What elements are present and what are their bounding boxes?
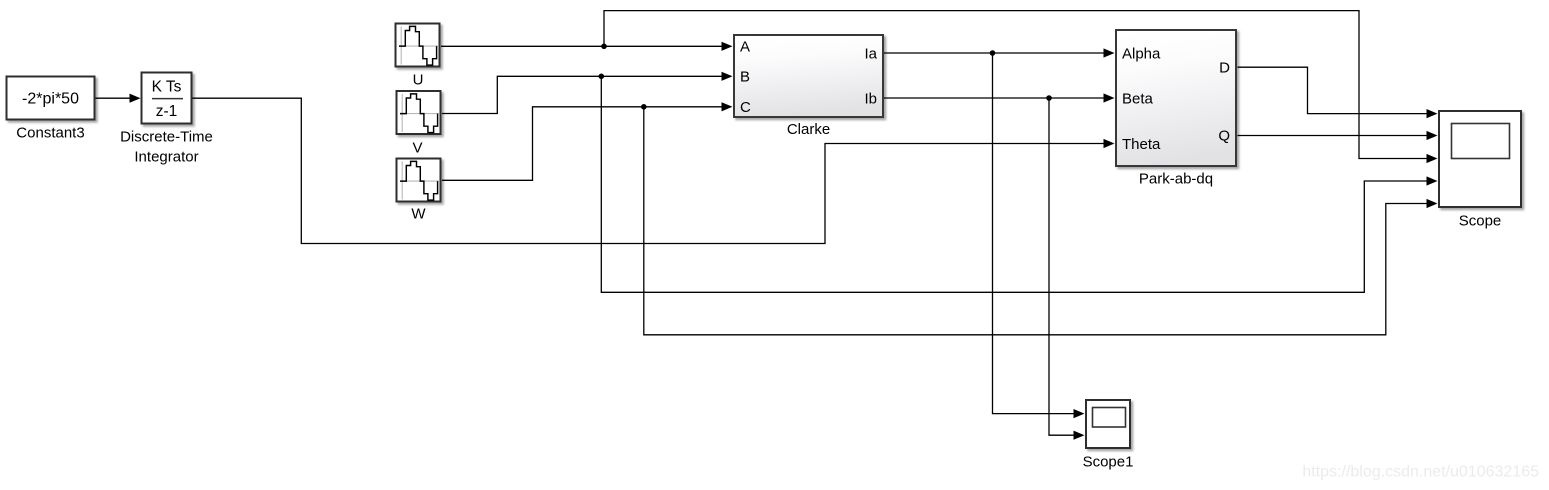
junction dot on V wire bbox=[599, 74, 605, 80]
svg-text:https://blog.csdn.net/u0106321: https://blog.csdn.net/u010632165 bbox=[1302, 464, 1539, 481]
wire junction U up over top to Scope input 3 bbox=[604, 11, 1438, 163]
svg-text:U: U bbox=[413, 71, 424, 88]
svg-text:B: B bbox=[740, 69, 750, 86]
junction dot on Ib wire bbox=[1046, 95, 1052, 101]
svg-text:Scope1: Scope1 bbox=[1083, 454, 1134, 471]
svg-text:D: D bbox=[1219, 60, 1230, 77]
scope block Scope bbox=[1439, 111, 1521, 230]
svg-text:Ia: Ia bbox=[864, 45, 877, 62]
wire Clarke Ib to Park Beta bbox=[884, 93, 1115, 102]
svg-text:Beta: Beta bbox=[1122, 90, 1154, 107]
junction dot on U wire bbox=[601, 44, 607, 50]
svg-text:Park-ab-dq: Park-ab-dq bbox=[1139, 170, 1213, 187]
svg-text:C: C bbox=[740, 99, 751, 116]
svg-text:Integrator: Integrator bbox=[134, 148, 198, 165]
source block U bbox=[396, 24, 440, 89]
subsystem block Clarke bbox=[734, 35, 883, 138]
wire junction V down and across to Scope input 4 bbox=[601, 76, 1437, 292]
svg-text:Clarke: Clarke bbox=[787, 121, 830, 138]
subsystem block Park-ab-dq bbox=[1116, 30, 1236, 187]
svg-text:K Ts: K Ts bbox=[152, 78, 182, 95]
svg-text:Theta: Theta bbox=[1122, 136, 1161, 153]
source block V bbox=[397, 91, 441, 156]
svg-text:V: V bbox=[412, 139, 422, 156]
wire Constant3 to Discrete-Time Integrator bbox=[96, 94, 141, 103]
svg-text:A: A bbox=[740, 39, 750, 56]
wire Park Q to Scope input 2 bbox=[1238, 131, 1438, 140]
svg-text:Discrete-Time: Discrete-Time bbox=[120, 128, 213, 145]
wire Integrator output to Park Theta input bbox=[193, 98, 1115, 243]
svg-text:Constant3: Constant3 bbox=[16, 124, 84, 141]
svg-text:-2*pi*50: -2*pi*50 bbox=[22, 91, 79, 108]
wire Park D to Scope input 1 bbox=[1238, 67, 1438, 118]
wire junction Ib down to Scope1 input 2 bbox=[1049, 98, 1085, 440]
svg-text:Scope: Scope bbox=[1459, 213, 1502, 230]
junction dot on Ia wire bbox=[990, 50, 996, 56]
constant block Constant3 bbox=[7, 77, 95, 142]
svg-text:Alpha: Alpha bbox=[1122, 45, 1161, 62]
svg-text:Q: Q bbox=[1218, 128, 1230, 145]
svg-text:W: W bbox=[411, 206, 426, 223]
source block W bbox=[397, 159, 441, 223]
junction dot on W wire bbox=[641, 104, 647, 110]
svg-text:Ib: Ib bbox=[864, 90, 877, 107]
svg-text:z-1: z-1 bbox=[156, 103, 178, 120]
scope block Scope1 bbox=[1083, 400, 1134, 471]
wire junction W down and across to Scope input 5 bbox=[644, 107, 1438, 335]
wire junction Ia down to Scope1 input 1 bbox=[993, 53, 1085, 418]
wire W to Clarke C bbox=[442, 102, 733, 180]
wire U to Clarke A bbox=[441, 42, 733, 51]
wire V to Clarke B bbox=[442, 72, 733, 114]
wire Clarke Ia to Park Alpha bbox=[884, 48, 1115, 57]
integrator block Discrete-Time Integrator U2 bbox=[120, 73, 213, 166]
